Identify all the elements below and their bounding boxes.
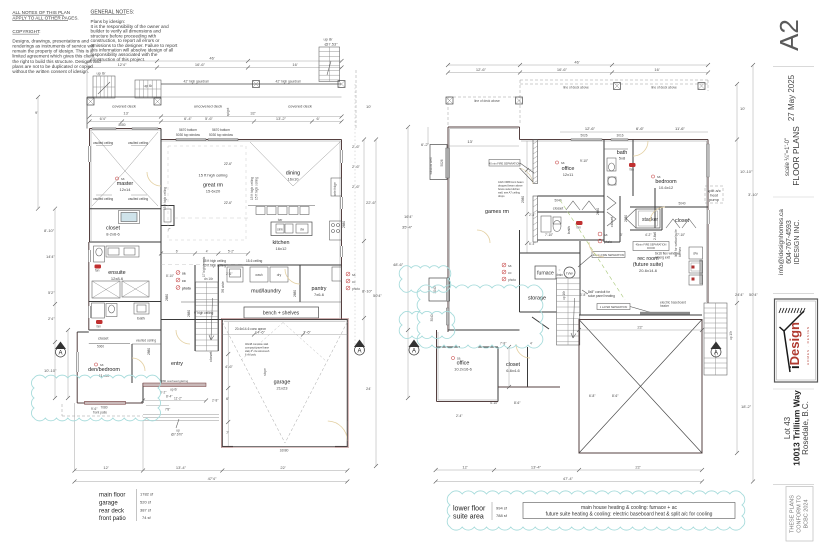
svg-text:13'-4": 13'-4" [176,465,187,470]
svg-text:2980: 2980 [521,196,525,203]
svg-text:15 ft high ceiling: 15 ft high ceiling [163,187,167,210]
door arcs right plan [477,141,665,358]
svg-text:6': 6' [226,396,229,401]
svg-text:THESE PLANS: THESE PLANS [790,495,796,533]
svg-text:vaulted ceiling: vaulted ceiling [136,339,156,343]
porch dims [141,388,218,412]
svg-text:788 sf: 788 sf [496,513,508,518]
svg-text:6-6x4-6: 6-6x4-6 [506,368,520,373]
1 layer separation label [597,304,658,315]
svg-text:12'-6": 12'-6" [585,126,596,131]
svg-text:15 ft high ceiling: 15 ft high ceiling [203,259,226,263]
revision clouds [31,266,542,421]
window hatch office left wall [430,308,449,325]
unexcavated slab below garage with X [577,320,704,454]
svg-text:16'-6": 16'-6" [557,67,568,72]
deck post 4 [338,81,345,88]
svg-text:13'-2": 13'-2" [276,116,287,121]
svg-text:5026: 5026 [440,159,444,166]
svg-text:42" high gaurdrail: 42" high gaurdrail [276,80,301,84]
svg-text:sa: sa [604,233,608,237]
svg-text:co: co [182,279,186,283]
porch steps [143,415,219,437]
furnace room walls [520,230,581,315]
svg-text:5060: 5060 [97,345,104,349]
svg-text:16': 16' [654,67,659,72]
area tables [99,489,745,530]
closet right [630,202,708,231]
deck post 2 [154,98,161,105]
svg-text:22'-6": 22'-6" [224,162,232,166]
title block [773,19,818,541]
svg-text:3'-10": 3'-10" [748,192,759,197]
svg-text:6'-4": 6'-4" [184,116,193,121]
baseboard heat note [582,290,615,298]
bath 5x8 [604,140,655,243]
bottom dim line row2 47'4" [73,476,350,484]
svg-text:A: A [412,348,416,354]
svg-text:12': 12' [103,465,108,470]
svg-text:2'-4": 2'-4" [456,414,462,418]
svg-text:A2: A2 [774,19,804,51]
svg-text:46': 46' [209,56,214,61]
svg-text:games rm: games rm [485,209,509,215]
svg-text:up 6r: up 6r [143,83,153,88]
svg-text:wash: wash [255,273,263,277]
svg-text:garage: garage [99,501,118,507]
top wall games segment [448,127,520,140]
svg-text:2'-6": 2'-6" [352,144,361,149]
revision cloud right plan left upper [399,266,451,293]
window well lower left [429,278,450,301]
svg-text:5x8: 5x8 [619,156,626,161]
mud/laundry [218,265,341,295]
svg-text:front patio: front patio [93,411,107,415]
svg-text:10-6x12: 10-6x12 [659,185,674,190]
svg-text:○: ○ [559,268,561,272]
svg-text:8-2x6-6: 8-2x6-6 [106,232,120,237]
bottom dim row2 [434,476,704,484]
svg-text:520 sf: 520 sf [140,500,152,505]
svg-text:604-767-4593: 604-767-4593 [786,220,793,264]
right vertical dim lines [352,104,404,468]
svg-text:fan: fan [630,168,635,172]
interior small dims right plan [456,159,685,418]
svg-text:sa: sa [657,175,661,179]
bedroom window gap right wall [707,210,710,224]
svg-text:7080 overhead glazing: 7080 overhead glazing [160,379,189,383]
great room interior dim [224,162,232,205]
wall under closets [604,230,662,242]
small note office wall [498,180,524,198]
svg-text:20-6x14-6 conc apron: 20-6x14-6 conc apron [235,327,266,331]
svg-text:sa: sa [100,363,104,367]
pantry [300,265,342,302]
svg-text:18'-2": 18'-2" [741,404,752,409]
svg-text:closet: closet [208,351,213,362]
svg-text:sa: sa [561,161,565,165]
window gaps left wall left plan [76,146,91,372]
svg-text:8'-10": 8'-10" [44,228,55,233]
stair upper left (up 6r) [93,71,115,99]
svg-text:387 sf: 387 sf [140,508,152,513]
svg-text:15 ft high ceiling: 15 ft high ceiling [250,177,254,200]
svg-text:6'-2": 6'-2" [421,142,430,147]
svg-text:27 May 2025: 27 May 2025 [787,74,796,121]
svg-text:vaulted ceiling: vaulted ceiling [93,197,113,201]
bottom dim row1 [434,465,704,473]
svg-text:21x23: 21x23 [277,386,289,391]
games/office partition [520,140,538,243]
svg-text:13': 13' [123,111,128,116]
svg-text:Rosedale, B.C.: Rosedale, B.C. [801,401,810,455]
svg-text:16': 16' [292,62,297,67]
svg-text:sink: sink [277,228,283,232]
svg-text:5030 top window: 5030 top window [209,133,234,137]
svg-text:d/w: d/w [693,252,699,256]
svg-text:9'-10": 9'-10" [580,159,588,163]
svg-text:window well: window well [429,157,433,174]
svg-text:12x8-6: 12x8-6 [111,276,124,281]
svg-text:35'-4": 35'-4" [402,225,413,230]
svg-text:1 LAYER SEPARATION: 1 LAYER SEPARATION [600,305,628,309]
window gaps right wall left plan [340,150,343,257]
svg-text:10': 10' [740,106,745,111]
svg-text:vaulted ceiling: vaulted ceiling [93,141,113,145]
svg-text:spigot: spigot [226,108,230,117]
9 ft ceiling labels above garage [194,311,266,331]
closet 7x6-6 [500,342,533,374]
svg-text:2680: 2680 [624,215,628,222]
top wall office/bath/bedroom segment with windows [520,134,709,142]
svg-text:compact gravel base: compact gravel base [245,346,269,350]
svg-text:12'4": 12'4" [118,62,127,67]
svg-text:50'4": 50'4" [373,293,382,298]
office lower-left [437,330,499,402]
heating note cloud [447,491,745,530]
door arcs left plan [132,172,300,371]
svg-text:24'4": 24'4" [735,292,744,297]
left exterior wall [89,129,91,331]
svg-text:closet: closet [553,206,564,211]
revision cloud right plan left lower [399,311,455,338]
rec room bottom wall / slab top [579,293,702,315]
conformance box [786,487,813,542]
svg-text:vaulted ceiling: vaulted ceiling [128,141,148,145]
svg-text:11'-6": 11'-6" [675,126,685,131]
svg-text:22': 22' [280,465,285,470]
svg-text:32': 32' [250,111,255,116]
window well upper left [429,145,449,180]
svg-text:46': 46' [574,60,579,65]
fireplace bump great room [161,206,174,232]
svg-text:2-6x6: 2-6x6 [653,232,657,240]
svg-text:photo: photo [508,278,516,282]
svg-text:bath: bath [137,316,145,321]
svg-text:45min FIRE SEPARATION: 45min FIRE SEPARATION [636,243,667,247]
range [330,221,342,240]
svg-text:12': 12' [462,465,467,470]
svg-text:5670 bottom: 5670 bottom [179,128,197,132]
svg-text:7'-10": 7'-10" [677,233,685,237]
svg-text:sa: sa [121,177,125,181]
svg-text:3': 3' [620,233,623,237]
svg-text:6': 6' [317,116,320,121]
svg-text:APPLY TO ALL OTHER PAGES.: APPLY TO ALL OTHER PAGES. [12,15,78,20]
svg-text:2'-6": 2'-6" [352,164,361,169]
svg-text:15 ft high ceiling: 15 ft high ceiling [255,177,259,200]
hallway walls center [437,317,561,402]
svg-text:entry: entry [171,361,183,367]
svg-text:dw: dw [300,228,305,232]
svg-text:up 6r: up 6r [170,388,178,392]
svg-text:CONFORM TO: CONFORM TO [797,495,803,533]
sa/photo legend small upper [598,232,612,244]
svg-text:drain: drain [556,273,563,277]
svg-text:40 min FIRE SEPARATION: 40 min FIRE SEPARATION [593,253,625,257]
stair top right corner [319,37,356,129]
top overall dimension 46' [446,60,710,68]
svg-text:8'-6": 8'-6" [514,401,520,405]
svg-text:5'-6": 5'-6" [205,116,214,121]
deck post above 2 [516,97,523,104]
svg-text:dropped beam above: dropped beam above [498,184,523,188]
svg-text:main house heating & cooling:: main house heating & cooling: furnace + … [581,505,678,511]
stair second (up 6r) [135,80,161,98]
patio dashed edge [62,404,143,416]
svg-text:40 min FIRE SEPARATION: 40 min FIRE SEPARATION [489,161,521,165]
svg-text:slope: slope [263,368,267,376]
svg-text:storage: storage [528,296,546,302]
storage [520,296,557,313]
svg-text:bench + shelves: bench + shelves [263,311,300,317]
sa/co/photo legend near stairs [176,271,191,291]
svg-text:2680: 2680 [165,294,169,301]
svg-text:main floor: main floor [99,493,125,499]
svg-text:16x10: 16x10 [288,177,300,182]
svg-text:solar panel heating: solar panel heating [588,294,615,298]
svg-text:22': 22' [635,465,640,470]
svg-text:2680: 2680 [187,310,191,317]
revision cloud den/patio [31,375,160,421]
general notes [91,9,179,62]
svg-text:front patio: front patio [99,516,126,522]
deck post above 3 [614,83,621,90]
svg-text:photo: photo [182,287,191,291]
svg-text:BCBC 2024: BCBC 2024 [804,499,810,528]
10 ft ceiling labels kitchen area [203,259,263,268]
svg-text:5040: 5040 [678,202,685,206]
svg-text:4'-10": 4'-10" [490,401,498,405]
svg-text:up 15r: up 15r [729,330,733,340]
svg-text:4'-6": 4'-6" [225,364,234,369]
svg-text:IDESIGN INC.: IDESIGN INC. [794,220,801,265]
property dotted line [354,84,356,345]
svg-text:3016: 3016 [616,134,623,138]
section marker A right [354,340,365,356]
master bedroom [90,129,162,209]
separator lines [773,66,814,68]
svg-text:8'-10": 8'-10" [362,289,373,294]
hall dim row [159,218,250,278]
svg-text:16080: 16080 [280,449,289,453]
deck post 3 [253,81,260,88]
deck dim line 6'4 / 13'-2 [88,116,344,127]
svg-text:wall, see A7 ceiling: wall, see A7 ceiling [498,191,520,195]
svg-text:7': 7' [168,228,171,232]
top sub dimension [446,67,710,75]
svg-text:12'-6": 12'-6" [476,67,487,72]
svg-text:fan: fan [95,269,100,273]
svg-text:14'4": 14'4" [46,254,55,259]
svg-text:9' high ceiling: 9' high ceiling [194,311,213,315]
closet row under office [538,196,605,240]
svg-text:10 ft high ceiling: 10 ft high ceiling [203,264,226,268]
deck labels [112,104,312,117]
svg-text:A: A [357,348,361,354]
right exterior wall [340,140,342,320]
svg-text:COPYRIGHT:: COPYRIGHT: [12,29,40,34]
svg-text:2'-4": 2'-4" [529,213,535,217]
svg-text:8'-10": 8'-10" [166,274,174,278]
house top wall master segment [90,128,162,130]
svg-text:9': 9' [35,110,38,115]
window labels over great room wall [176,128,234,137]
svg-text:994 sf: 994 sf [496,506,508,511]
svg-text:lower floor: lower floor [453,506,486,513]
svg-text:2'-6": 2'-6" [352,184,361,189]
svg-text:7': 7' [226,430,229,435]
svg-text:HOMES · DESIGN: HOMES · DESIGN [806,326,810,365]
svg-text:40x48 concrete slab: 40x48 concrete slab [245,342,269,346]
left vertical dims [402,125,430,400]
svg-text:2'4": 2'4" [48,316,55,321]
svg-text:7x6-6: 7x6-6 [314,292,325,297]
svg-text:arte frdge: arte frdge [333,182,337,196]
kitchen label [272,240,289,251]
interior door/window small labels [147,221,346,355]
left vertical dim lines [35,95,70,400]
games room [485,141,535,253]
40min fire separation label 2 [578,252,625,268]
svg-text:bath: bath [566,226,571,234]
sa/co/photo legend left plan [346,272,360,291]
svg-text:13': 13' [467,139,472,144]
svg-text:sa: sa [182,272,186,276]
house window wall great room [161,139,342,141]
center stairs dn [196,256,219,351]
svg-text:drops: drops [498,194,505,198]
hallway dims small [221,281,225,293]
svg-text:line of deck above: line of deck above [563,86,589,90]
svg-text:info@idesignhomes.ca: info@idesignhomes.ca [778,209,785,275]
svg-text:emerg exit: emerg exit [655,256,670,260]
svg-text:sa: sa [457,357,461,361]
rec room [633,256,663,273]
vaulted ceiling labels master [93,141,148,201]
svg-text:10': 10' [366,104,371,109]
svg-text:co: co [508,271,512,275]
svg-text:74 sf: 74 sf [142,515,152,520]
stair core walls [161,209,218,351]
svg-text:10'-10": 10'-10" [44,368,57,373]
svg-text:h/w: h/w [566,271,572,276]
svg-text:13'-4": 13'-4" [531,465,542,470]
svg-text:FLOOR PLANS: FLOOR PLANS [791,126,801,186]
dims above top wall [448,126,708,146]
svg-text:@7.53": @7.53" [324,42,338,47]
svg-text:slab 4" c/w wiremesh: slab 4" c/w wiremesh [245,349,270,353]
entry [132,330,183,383]
top overall dimension line 46' [88,56,344,64]
svg-text:scale ¼"=1'-0": scale ¼"=1'-0" [785,138,791,176]
svg-text:future suite kitchen: future suite kitchen [498,187,520,191]
ensuite [89,246,161,302]
svg-text:photo: photo [604,240,612,244]
section marker A right [711,342,722,358]
svg-text:5'-2": 5'-2" [228,249,234,253]
svg-text:11'-2": 11'-2" [174,397,182,401]
svg-text:line of deck above: line of deck above [474,99,500,103]
bench + shelves [218,302,341,318]
svg-text:fan: fan [97,325,102,329]
green future suite line [560,200,625,300]
svg-text:heater: heater [660,304,670,308]
hot water tank [564,267,575,278]
svg-text:DOOR: DOOR [647,246,655,250]
svg-text:7'-8": 7'-8" [500,342,506,346]
svg-text:22'-6": 22'-6" [224,201,232,205]
45min fire separation label [633,242,669,251]
deck post above 4 [698,83,705,90]
svg-text:5030 top window: 5030 top window [176,133,201,137]
svg-text:suite area: suite area [453,514,484,521]
svg-text:covered deck: covered deck [288,104,312,109]
great room labels [163,146,246,240]
svg-text:3'6 wide: 3'6 wide [221,281,225,293]
svg-text:future suite heating & cooling: future suite heating & cooling: electric… [546,512,713,518]
svg-text:3040: 3040 [430,314,434,321]
svg-text:15 ft high ceiling: 15 ft high ceiling [199,173,228,178]
svg-text:mud/laundry: mud/laundry [251,289,281,295]
svg-text:6'-8": 6'-8" [580,293,586,297]
fire separation label 1 [489,160,534,174]
closet near entry [208,351,213,362]
svg-text:4'-2": 4'-2" [645,233,651,237]
deck dim line 13' / 32' [88,111,344,119]
svg-text:closet: closet [609,216,614,227]
svg-text:50'4": 50'4" [749,292,758,297]
svg-text:uncovered deck: uncovered deck [194,104,222,109]
svg-text:2'-8": 2'-8" [212,399,218,403]
right exterior wall [700,140,710,304]
svg-text:22'-6": 22'-6" [366,200,377,205]
deck guardrail line [161,80,342,85]
center closet rotated [607,196,620,242]
svg-text:48'-6": 48'-6" [393,262,404,267]
svg-text:5'2": 5'2" [48,290,55,295]
svg-text:16'-6": 16'-6" [195,62,206,67]
svg-text:up 6r: up 6r [96,71,106,76]
svg-text:closet: closet [98,336,109,341]
svg-text:4': 4' [530,342,533,346]
deck post 1 [87,98,94,105]
svg-text:5670 bottom: 5670 bottom [212,128,230,132]
svg-text:vaulted ceiling: vaulted ceiling [128,197,148,201]
office 12x11 [555,161,574,177]
svg-text:7'-10": 7'-10" [545,233,553,237]
svg-text:47'-4": 47'-4" [563,476,574,481]
